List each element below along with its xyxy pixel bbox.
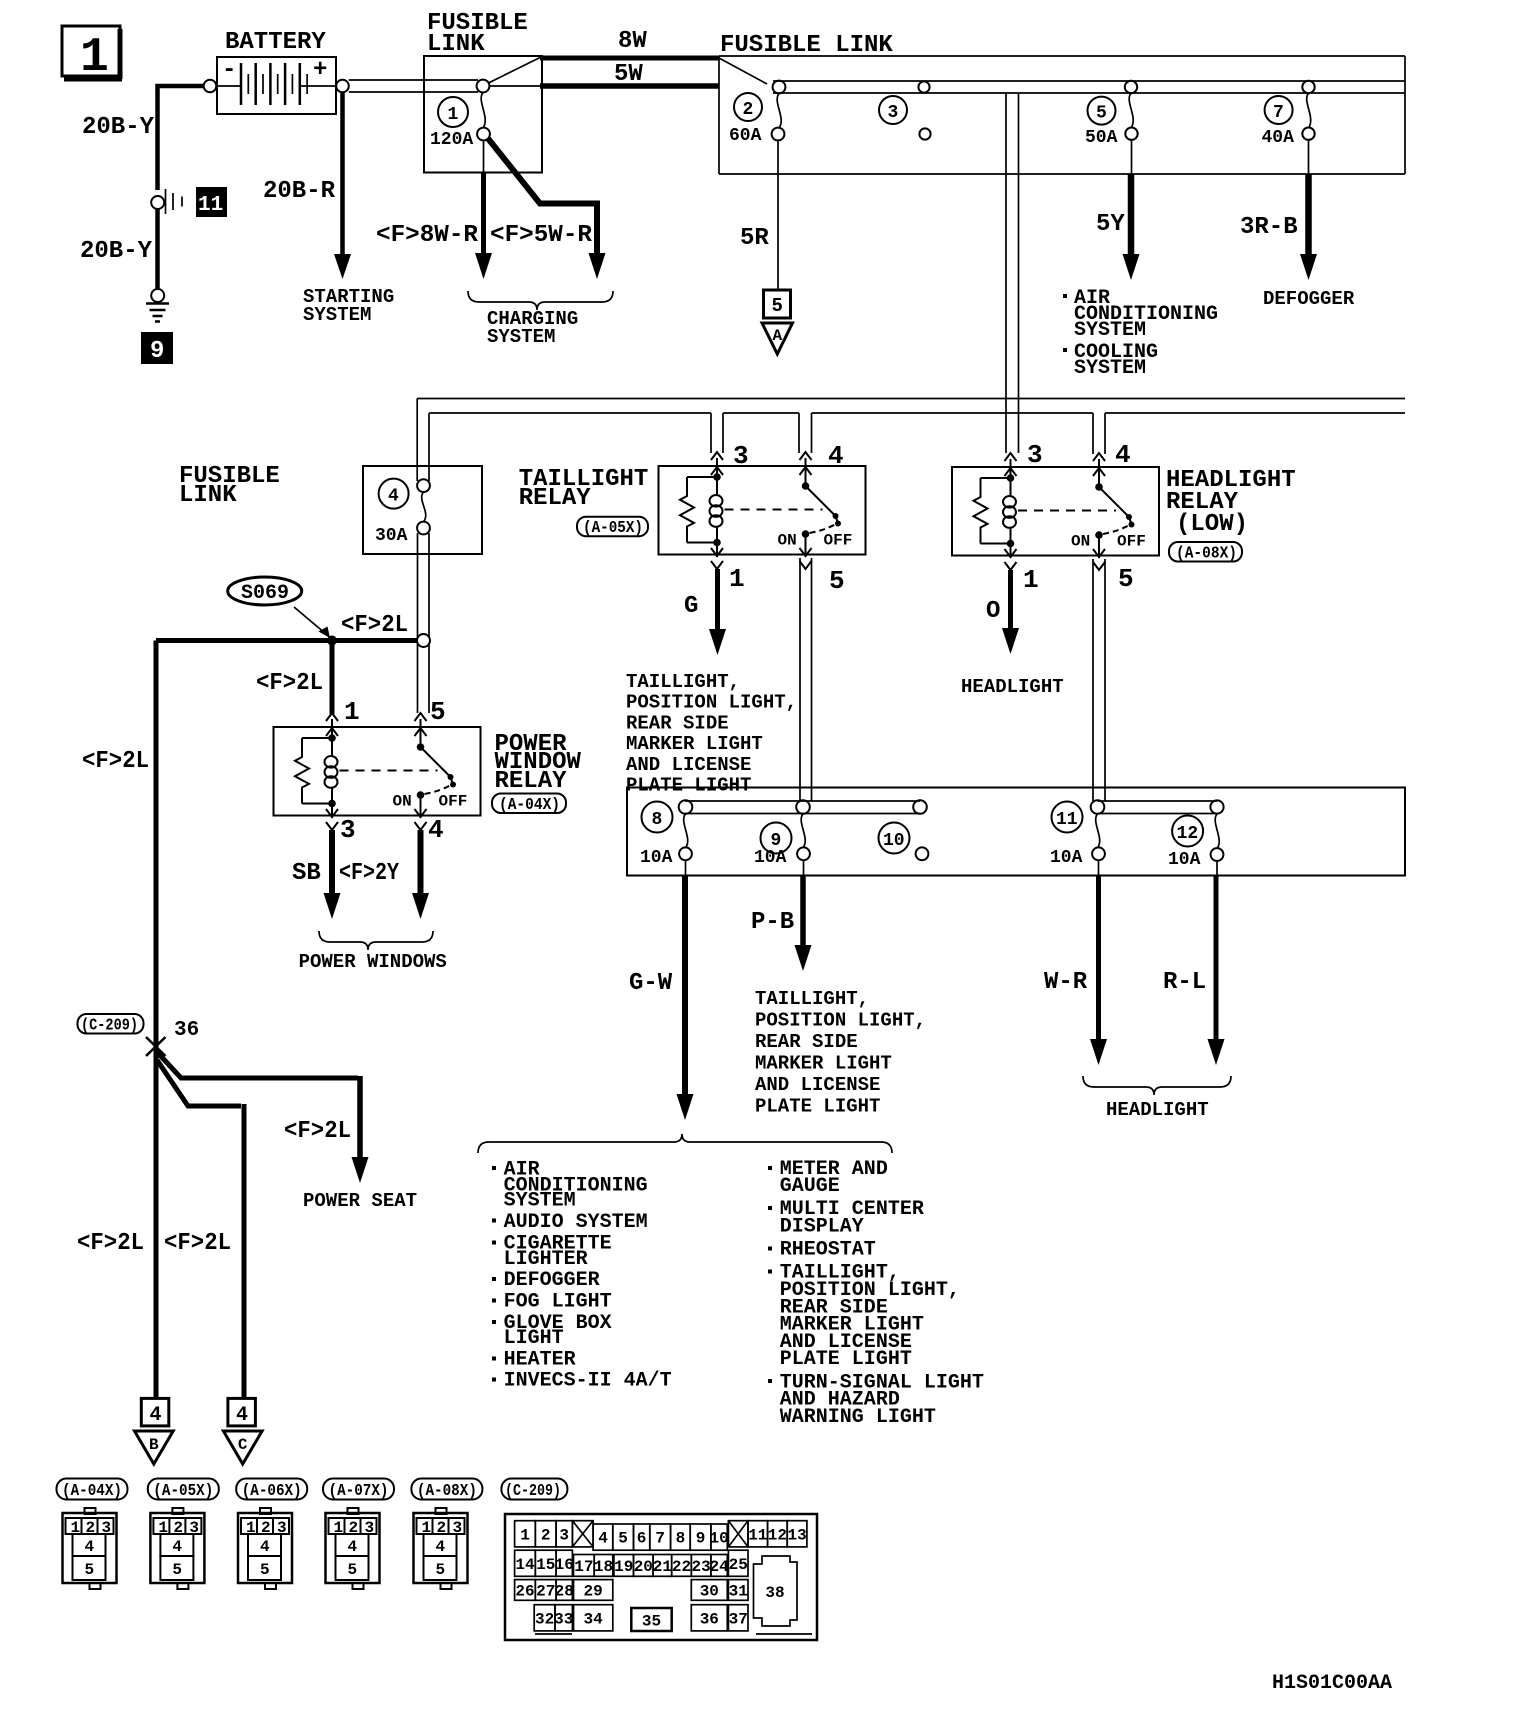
svg-text:DISPLAY: DISPLAY — [780, 1216, 864, 1239]
svg-text:(C-209): (C-209) — [81, 1017, 138, 1036]
splice junction dot S069 — [327, 636, 337, 646]
left main wire (F)2L down — [154, 641, 159, 1399]
svg-text:5: 5 — [829, 566, 845, 596]
branch wire to power seat — [157, 1052, 369, 1183]
svg-text:<F>8W-R: <F>8W-R — [376, 222, 479, 249]
svg-text:LIGHTER: LIGHTER — [504, 1248, 588, 1271]
svg-text:RELAY: RELAY — [495, 768, 568, 795]
wire battery positive pair to fusible link — [349, 80, 478, 92]
fusible link 1 box — [424, 56, 542, 173]
svg-text:REAR SIDE: REAR SIDE — [755, 1031, 858, 1053]
svg-text:2: 2 — [541, 1526, 551, 1544]
connector pinout A-07X — [326, 1508, 380, 1589]
svg-text:(A-05X): (A-05X) — [583, 519, 643, 538]
fusible link box 2 outline — [719, 56, 1405, 174]
svg-text:25: 25 — [729, 1556, 748, 1574]
fuse 4 output pair down to power window relay pin 5 — [418, 533, 430, 713]
off-page triangle C — [223, 1431, 262, 1464]
wire S069 down to power window relay pin 1 — [330, 641, 335, 715]
svg-text:C: C — [238, 1436, 248, 1454]
distribution bus lower segments — [429, 412, 1405, 414]
fuse 1 element — [477, 80, 490, 141]
fuse 7 element — [1302, 81, 1314, 140]
svg-text:5: 5 — [430, 697, 446, 727]
wire SB from power window relay pin 3 — [324, 830, 341, 919]
fuse 8 circled number — [642, 802, 673, 833]
svg-text:7: 7 — [655, 1530, 665, 1548]
svg-text:2: 2 — [743, 100, 754, 120]
fuse 12 element — [1211, 814, 1224, 861]
fuse 5 circled number — [1088, 97, 1116, 125]
bus drop wires to fusible link 4 — [417, 399, 429, 482]
svg-text:20: 20 — [634, 1558, 653, 1576]
diagonal to 8W band — [489, 58, 541, 84]
splice S069 label oval — [228, 577, 302, 605]
svg-text:G-W: G-W — [629, 970, 673, 997]
svg-text:21: 21 — [653, 1558, 672, 1576]
svg-text:10A: 10A — [1168, 850, 1201, 870]
wire (F)8W-R charging — [475, 140, 492, 279]
wire G-W from fuse 8 — [677, 860, 694, 1120]
connector tag A-06X — [236, 1479, 307, 1502]
svg-text:G: G — [684, 593, 698, 620]
svg-text:B: B — [149, 1436, 159, 1454]
svg-text:4: 4 — [598, 1530, 608, 1548]
svg-text:10A: 10A — [1050, 848, 1083, 868]
svg-text:INVECS-II 4A/T: INVECS-II 4A/T — [504, 1369, 672, 1392]
wire 5R from fuse 2 — [777, 140, 779, 290]
branch wire to connector C — [157, 1060, 244, 1398]
svg-text:5W: 5W — [614, 61, 643, 88]
svg-text:PLATE LIGHT: PLATE LIGHT — [780, 1348, 912, 1371]
svg-text:34: 34 — [583, 1610, 603, 1628]
svg-text:SYSTEM: SYSTEM — [303, 304, 371, 326]
headlight relay HEADLIGHT RELAY (LOW) A-08X — [952, 453, 1159, 570]
8W thick band — [540, 56, 719, 61]
svg-text:<F>2L: <F>2L — [341, 612, 408, 639]
fuse 4 element — [417, 479, 430, 534]
svg-text:TAILLIGHT,: TAILLIGHT, — [626, 671, 740, 693]
svg-text:60A: 60A — [729, 126, 762, 146]
svg-text:36: 36 — [700, 1610, 719, 1628]
svg-text:10A: 10A — [640, 848, 673, 868]
brace power windows — [319, 931, 433, 950]
svg-text:LIGHT: LIGHT — [504, 1327, 564, 1350]
taillight relay pin4 feed pair — [799, 413, 812, 453]
fuse 9 element — [797, 814, 810, 860]
svg-text:WARNING LIGHT: WARNING LIGHT — [780, 1406, 936, 1429]
svg-text:28: 28 — [555, 1582, 574, 1600]
off-page triangle A — [762, 323, 793, 354]
tag A-04X — [492, 794, 566, 816]
tag A-05X — [577, 517, 648, 538]
svg-text:REAR SIDE: REAR SIDE — [626, 712, 729, 734]
svg-text:4: 4 — [1115, 440, 1131, 470]
supply bus pair — [773, 81, 1405, 93]
svg-text:8: 8 — [676, 1530, 686, 1548]
svg-text:50A: 50A — [1085, 128, 1118, 148]
svg-text:32: 32 — [535, 1610, 554, 1628]
svg-text:12: 12 — [768, 1526, 787, 1544]
svg-text:(A-07X): (A-07X) — [329, 1482, 389, 1501]
connector tag A-05X — [148, 1479, 219, 1502]
svg-text:3: 3 — [340, 815, 356, 845]
svg-text:3: 3 — [1027, 440, 1043, 470]
svg-text:(C-209): (C-209) — [505, 1482, 561, 1501]
svg-text:+: + — [313, 57, 327, 84]
fuse 9 circled number — [761, 823, 792, 854]
svg-text:20B-Y: 20B-Y — [80, 238, 153, 265]
connector C-209 tag — [78, 1014, 144, 1036]
battery negative terminal — [204, 80, 217, 93]
fuse 11 element — [1092, 814, 1105, 860]
svg-text:MARKER LIGHT: MARKER LIGHT — [755, 1053, 892, 1075]
svg-text:8W: 8W — [618, 28, 647, 55]
fuse box divider wires down to headlight relay pin 3 — [1006, 93, 1019, 453]
svg-text:AND LICENSE: AND LICENSE — [755, 1074, 880, 1096]
connector number box 11 — [196, 187, 227, 217]
label air conditioning cooling system — [1063, 287, 1218, 380]
fuse 11 circled number — [1052, 802, 1083, 833]
svg-text:-: - — [222, 57, 236, 84]
svg-text:RHEOSTAT: RHEOSTAT — [780, 1239, 876, 1262]
svg-text:(LOW): (LOW) — [1176, 511, 1248, 538]
svg-text:3R-B: 3R-B — [1240, 214, 1298, 241]
svg-text:10: 10 — [709, 1530, 728, 1548]
svg-text:17: 17 — [574, 1558, 593, 1576]
fuse bus bar right — [1091, 800, 1224, 814]
connector pinout C-209 — [505, 1514, 817, 1640]
svg-text:R-L: R-L — [1163, 969, 1206, 996]
taillight relay pin5 pair down to fuse box — [800, 558, 812, 801]
wire O from headlight relay pin 1 — [1002, 570, 1019, 654]
svg-text:AUDIO SYSTEM: AUDIO SYSTEM — [504, 1211, 648, 1234]
ground number box 9 — [141, 332, 173, 365]
svg-text:8: 8 — [652, 810, 663, 830]
svg-text:5: 5 — [1096, 104, 1107, 124]
svg-text:O: O — [986, 598, 1000, 625]
svg-text:MARKER LIGHT: MARKER LIGHT — [626, 733, 763, 755]
svg-text:SYSTEM: SYSTEM — [504, 1189, 576, 1212]
svg-text:1: 1 — [729, 564, 745, 594]
svg-text:(A-05X): (A-05X) — [153, 1482, 213, 1501]
svg-text:24: 24 — [709, 1558, 729, 1576]
svg-text:20B-R: 20B-R — [263, 178, 336, 205]
svg-text:9: 9 — [696, 1530, 706, 1548]
svg-text:POSITION LIGHT,: POSITION LIGHT, — [626, 692, 797, 714]
svg-text:5: 5 — [618, 1530, 628, 1548]
svg-text:33: 33 — [554, 1610, 573, 1628]
svg-text:10: 10 — [883, 831, 905, 851]
svg-text:W-R: W-R — [1044, 969, 1088, 996]
inline connector circle on ground wire — [151, 196, 164, 209]
svg-text:RELAY: RELAY — [519, 485, 592, 512]
svg-text:120A: 120A — [430, 130, 473, 150]
headlight relay pin5 pair down to fuse box — [1093, 559, 1105, 801]
svg-text:1: 1 — [1023, 565, 1039, 595]
svg-text:1: 1 — [80, 31, 109, 85]
thick feed wire through splice S069 — [156, 638, 417, 643]
svg-text:4: 4 — [388, 487, 399, 507]
svg-text:1: 1 — [344, 697, 360, 727]
svg-text:27: 27 — [536, 1582, 555, 1600]
fuse 7 circled number — [1265, 96, 1293, 124]
off-page triangle B — [135, 1431, 174, 1464]
fuse 3 circled number — [879, 96, 907, 124]
svg-text:HEATER: HEATER — [504, 1348, 576, 1371]
svg-text:(A-08X): (A-08X) — [417, 1482, 477, 1501]
page number box 1 — [62, 26, 122, 85]
svg-text:22: 22 — [672, 1558, 691, 1576]
fuse 3 empty terminals — [918, 81, 930, 139]
connector ref box 5 — [764, 290, 791, 318]
svg-text:16: 16 — [555, 1556, 574, 1574]
5W thick band — [540, 83, 719, 89]
svg-text:5: 5 — [772, 295, 783, 317]
fuse 8 load list left column — [492, 1158, 672, 1392]
wire (F)2Y from power window relay pin 4 — [412, 830, 429, 919]
svg-text:<F>5W-R: <F>5W-R — [490, 222, 593, 249]
svg-text:20B-Y: 20B-Y — [82, 114, 155, 141]
power window relay POWER WINDOW RELAY A-04X — [274, 713, 481, 830]
svg-text:6: 6 — [637, 1530, 647, 1548]
svg-text:40A: 40A — [1262, 128, 1295, 148]
fuse 12 circled number — [1172, 816, 1203, 847]
svg-text:FUSIBLE LINK: FUSIBLE LINK — [720, 32, 893, 59]
arrow from S069 label to splice — [294, 607, 330, 638]
svg-text:SYSTEM: SYSTEM — [1074, 319, 1146, 342]
brace fuse 8 loads — [478, 1134, 892, 1153]
svg-text:AND LICENSE: AND LICENSE — [626, 754, 751, 776]
fusible link 4 box — [363, 466, 482, 554]
label taillight loads upper — [626, 671, 797, 797]
svg-text:P-B: P-B — [751, 909, 794, 936]
wire W-R from fuse 11 — [1090, 860, 1107, 1065]
svg-text:PLATE LIGHT: PLATE LIGHT — [755, 1096, 880, 1118]
svg-text:DEFOGGER: DEFOGGER — [1263, 288, 1355, 310]
fuse 1 circled number — [438, 97, 468, 127]
svg-text:5: 5 — [1118, 564, 1134, 594]
ground G09 — [146, 289, 169, 322]
svg-text:POWER SEAT: POWER SEAT — [303, 1190, 417, 1212]
connector tag C-209 — [501, 1479, 567, 1502]
svg-text:A: A — [772, 327, 782, 345]
svg-text:<F>2Y: <F>2Y — [339, 860, 399, 887]
fuse bus bar left — [679, 800, 927, 814]
fuse 5 element — [1125, 81, 1138, 140]
svg-text:<F>2L: <F>2L — [82, 748, 149, 775]
svg-text:<F>2L: <F>2L — [284, 1118, 351, 1145]
fuse box 8-12 — [627, 788, 1405, 876]
svg-text:30A: 30A — [375, 526, 408, 546]
wire P-B from fuse 9 — [795, 860, 812, 971]
svg-text:POSITION LIGHT,: POSITION LIGHT, — [755, 1010, 926, 1032]
svg-text:5Y: 5Y — [1096, 211, 1125, 238]
svg-text:4: 4 — [236, 1404, 248, 1427]
svg-text:1: 1 — [448, 105, 459, 125]
svg-text:FOG LIGHT: FOG LIGHT — [504, 1291, 612, 1314]
fuse 10 circled number — [879, 823, 910, 854]
svg-text:1: 1 — [520, 1526, 530, 1544]
svg-text:11: 11 — [1056, 810, 1078, 830]
svg-text:10A: 10A — [754, 848, 787, 868]
svg-text:15: 15 — [536, 1556, 555, 1574]
svg-text:3: 3 — [733, 441, 749, 471]
diagonal 8W into fuse 2 — [719, 58, 767, 84]
connector pinout A-04X — [63, 1508, 117, 1589]
5W feeder line — [490, 85, 541, 87]
svg-text:18: 18 — [594, 1558, 613, 1576]
connector ref box 4 left — [141, 1398, 169, 1427]
svg-text:4: 4 — [828, 441, 844, 471]
fuse 10 empty terminal — [916, 847, 929, 860]
svg-text:(A-06X): (A-06X) — [242, 1482, 302, 1501]
svg-text:PLATE LIGHT: PLATE LIGHT — [626, 775, 751, 797]
svg-text:GAUGE: GAUGE — [780, 1175, 840, 1198]
svg-text:26: 26 — [515, 1582, 534, 1600]
svg-text:HEADLIGHT: HEADLIGHT — [961, 676, 1064, 698]
svg-text:SYSTEM: SYSTEM — [487, 326, 555, 348]
svg-text:(A-04X): (A-04X) — [62, 1482, 122, 1501]
svg-text:HEADLIGHT: HEADLIGHT — [1106, 1099, 1209, 1121]
svg-text:14: 14 — [515, 1556, 535, 1574]
svg-text:5R: 5R — [740, 225, 769, 252]
svg-text:11: 11 — [748, 1526, 767, 1544]
svg-text:35: 35 — [642, 1613, 661, 1631]
wire G from taillight relay pin 1 — [709, 569, 726, 655]
svg-text:LINK: LINK — [427, 31, 485, 58]
svg-text:3: 3 — [559, 1526, 569, 1544]
brace headlight — [1083, 1076, 1231, 1095]
connector ref box 4 right — [228, 1398, 256, 1427]
connector tag A-07X — [323, 1479, 394, 1502]
svg-text:19: 19 — [614, 1558, 633, 1576]
crossing mark at C-209 pin 36 — [146, 1037, 166, 1056]
battery positive terminal — [336, 80, 349, 93]
wire 20B-R to starting system — [334, 93, 351, 280]
connector pinout A-05X — [150, 1508, 204, 1589]
fuse 8 element — [679, 814, 692, 860]
wire 5Y from fuse 5 — [1123, 140, 1140, 280]
svg-text:29: 29 — [583, 1582, 602, 1600]
brace charging system — [468, 291, 613, 310]
svg-text:POWER WINDOWS: POWER WINDOWS — [299, 951, 447, 973]
svg-text:13: 13 — [787, 1526, 806, 1544]
svg-text:30: 30 — [700, 1582, 719, 1600]
battery BATTERY — [217, 57, 337, 114]
fuse 8 load list right column — [768, 1158, 984, 1429]
svg-text:4: 4 — [150, 1404, 162, 1427]
svg-text:(A-04X): (A-04X) — [499, 796, 560, 815]
svg-text:<F>2L: <F>2L — [77, 1230, 144, 1257]
svg-text:SB: SB — [292, 860, 321, 887]
svg-text:TAILLIGHT,: TAILLIGHT, — [755, 988, 869, 1010]
connector pinout A-06X — [238, 1508, 292, 1589]
fuse 2 circled number — [734, 93, 762, 121]
wire battery negative to ground — [158, 86, 204, 289]
headlight relay pin4 feed pair — [1093, 413, 1105, 454]
fuse 2 element — [772, 81, 786, 141]
svg-text:12: 12 — [1177, 824, 1199, 844]
distribution bus upper — [417, 398, 1405, 400]
fuse 4 circled number — [379, 479, 409, 509]
taillight relay pin3 feed pair — [711, 413, 723, 453]
svg-text:LINK: LINK — [179, 482, 237, 509]
svg-text:H1S01C00AA: H1S01C00AA — [1272, 1672, 1392, 1695]
svg-text:<F>2L: <F>2L — [164, 1230, 231, 1257]
svg-text:S069: S069 — [241, 582, 289, 605]
svg-text:23: 23 — [691, 1558, 710, 1576]
svg-text:37: 37 — [729, 1610, 748, 1628]
svg-text:9: 9 — [150, 338, 164, 365]
svg-text:11: 11 — [198, 194, 223, 217]
wire 3R-B from fuse 7 — [1300, 140, 1317, 280]
wire R-L from fuse 12 — [1208, 861, 1225, 1065]
svg-text:3: 3 — [888, 103, 899, 123]
svg-text:SYSTEM: SYSTEM — [1074, 357, 1146, 380]
svg-text:31: 31 — [729, 1582, 748, 1600]
junction ring on fusible link pair — [417, 634, 430, 647]
svg-text:BATTERY: BATTERY — [225, 29, 326, 56]
svg-text:38: 38 — [765, 1584, 784, 1602]
connector tag A-08X — [411, 1479, 482, 1502]
svg-text:(A-08X): (A-08X) — [1176, 545, 1237, 564]
wire (F)5W-R charging — [488, 139, 606, 280]
connector pinout A-08X — [414, 1508, 468, 1589]
svg-text:36: 36 — [174, 1019, 199, 1042]
svg-text:<F>2L: <F>2L — [256, 670, 323, 697]
svg-text:7: 7 — [1273, 103, 1284, 123]
svg-text:DEFOGGER: DEFOGGER — [504, 1269, 600, 1292]
tag A-08X — [1169, 542, 1242, 564]
label taillight loads lower — [755, 988, 926, 1118]
connector tag A-04X — [57, 1479, 128, 1502]
taillight relay TAILLIGHT RELAY A-05X — [659, 452, 866, 569]
svg-text:4: 4 — [428, 815, 444, 845]
